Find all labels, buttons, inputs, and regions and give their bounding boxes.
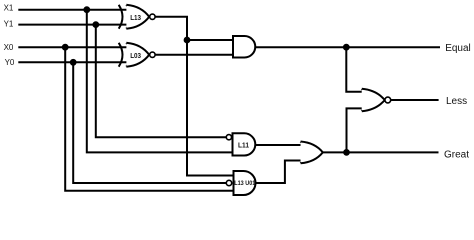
wire X1 vertical drop <box>87 10 233 153</box>
and gate L13 U01 <box>226 171 256 195</box>
node X1 label <box>4 4 14 13</box>
wire Y1 vertical drop <box>96 25 227 138</box>
wire X0 vertical drop <box>65 47 234 191</box>
node Y0 label <box>5 58 15 67</box>
wire Y0 vertical drop <box>73 62 226 183</box>
wire U01 output up to OR <box>256 161 305 184</box>
junction Y0 branch <box>71 60 76 65</box>
svg-text:L13 U01: L13 U01 <box>234 181 256 187</box>
junction X1 branch <box>84 7 89 12</box>
nor gate U_less <box>362 89 391 111</box>
wire Equal output line <box>255 46 440 48</box>
or gate U_great <box>301 142 323 164</box>
svg-text:Y1: Y1 <box>4 20 14 29</box>
junction X0 branch <box>63 45 68 50</box>
svg-text:X1: X1 <box>4 4 14 13</box>
wire L11 output to OR <box>255 144 303 146</box>
node Equal label <box>445 43 471 54</box>
wire L13 output to node and down <box>155 17 233 176</box>
wire Less output line <box>391 99 439 101</box>
junction Great branch <box>344 150 349 155</box>
svg-text:X0: X0 <box>4 43 14 52</box>
wire L03 output to AND <box>155 54 233 56</box>
svg-text:L11: L11 <box>238 142 249 149</box>
node Great label <box>444 149 469 160</box>
junction Y1 branch <box>93 22 98 27</box>
svg-text:Equal: Equal <box>445 43 471 54</box>
wire X0 input line <box>18 46 128 48</box>
wire Y0 input line <box>18 61 128 63</box>
svg-text:Great: Great <box>444 149 469 160</box>
svg-text:L03: L03 <box>130 52 141 60</box>
node X0 label <box>4 43 14 52</box>
wire X1 input line <box>18 9 128 11</box>
wire L13out branch to AND <box>187 39 233 41</box>
nand gate L11 <box>226 133 255 155</box>
wire Equal to NOR top input <box>346 47 364 91</box>
xnor gate L13 <box>119 5 155 29</box>
wire Great to NOR bottom input <box>347 108 365 152</box>
wire Great output line <box>323 151 439 153</box>
junction Equal branch <box>344 45 349 50</box>
wire Y1 input line <box>18 24 128 26</box>
xnor gate L03 <box>119 43 155 67</box>
node Less label <box>446 96 467 107</box>
and gate U_equal <box>233 36 255 58</box>
node Y1 label <box>4 20 14 29</box>
svg-text:Y0: Y0 <box>5 58 15 67</box>
svg-text:L13: L13 <box>130 14 141 22</box>
svg-text:Less: Less <box>446 96 467 107</box>
junction L13out branch <box>185 38 190 43</box>
